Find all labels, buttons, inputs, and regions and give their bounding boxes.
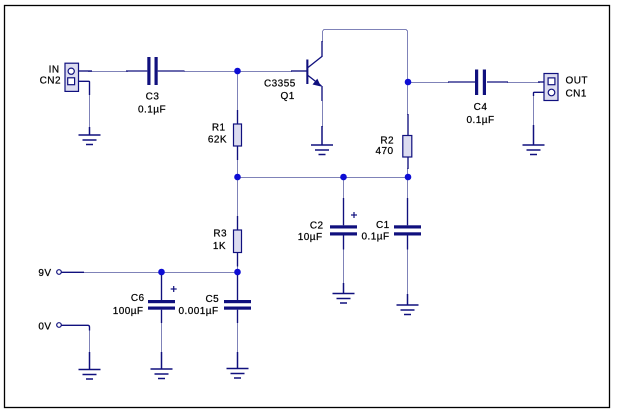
ground at C6 — [151, 352, 173, 379]
node at C3/R1 — [234, 68, 241, 75]
wire C4 to CN1 — [507, 82, 540, 84]
wire node to C4 — [409, 82, 449, 84]
wire R1 bottom to node — [237, 159, 239, 175]
wire node to C2 — [343, 179, 345, 199]
wire CN1 pin 2 to ground — [533, 95, 535, 126]
wire C1 to ground — [407, 249, 409, 295]
svg-text:C3: C3 — [146, 92, 160, 103]
svg-text:R3: R3 — [213, 229, 227, 240]
wire C6 to ground — [161, 322, 163, 353]
capacitor C3 — [126, 57, 185, 85]
ground at C1 — [397, 294, 419, 315]
wire R2 bottom to node — [407, 168, 409, 175]
ground at CN2 — [79, 127, 101, 145]
wire R3 bottom to node — [237, 265, 239, 270]
svg-text:0.1µF: 0.1µF — [362, 232, 390, 243]
wire node to R1 top — [237, 73, 239, 111]
node at R2 top / C4 — [405, 79, 412, 86]
capacitor C5 — [224, 275, 251, 323]
resistor R1 — [234, 110, 242, 160]
ground at C2 — [333, 283, 355, 303]
svg-text:100µF: 100µF — [113, 306, 144, 317]
terminal 9V — [57, 270, 84, 275]
connector CN2 — [65, 63, 92, 95]
label plus C2 — [351, 212, 357, 218]
svg-text:470: 470 — [375, 146, 393, 157]
svg-text:0V: 0V — [38, 322, 51, 333]
svg-text:0.001µF: 0.001µF — [179, 306, 219, 317]
ground at 0V — [79, 352, 101, 379]
ground at Q1 emitter — [311, 126, 333, 155]
wire Q1 emitter to ground — [322, 101, 324, 127]
wire CN2 to C3 — [88, 71, 128, 73]
wire Q1 collector to node at R2 top — [323, 30, 408, 80]
capacitor C1 — [394, 198, 421, 250]
svg-text:IN: IN — [49, 65, 60, 76]
ground at CN1 — [523, 125, 545, 155]
capacitor C6 — [148, 275, 175, 323]
wire node to C1 — [407, 179, 409, 199]
svg-text:C3355: C3355 — [264, 79, 296, 90]
connector CN1 — [534, 74, 559, 101]
svg-text:C1: C1 — [376, 220, 390, 231]
svg-text:1K: 1K — [213, 241, 226, 252]
wire C2 to ground — [343, 249, 345, 284]
capacitor C2 — [330, 198, 357, 250]
wire bias rail R1-C2-R2 — [238, 177, 409, 179]
node at bias rail / R2 bottom — [405, 174, 412, 181]
svg-text:OUT: OUT — [566, 76, 588, 87]
svg-text:C2: C2 — [310, 221, 324, 232]
wire CN2 pin 2 to ground — [89, 94, 91, 128]
resistor R3 — [234, 216, 242, 267]
node at 9V rail / C6 — [158, 269, 165, 276]
capacitor C4 — [448, 70, 508, 96]
svg-text:R1: R1 — [212, 123, 226, 134]
wire C5 to ground — [237, 322, 239, 353]
svg-text:CN2: CN2 — [40, 76, 61, 87]
svg-text:0.1µF: 0.1µF — [138, 105, 166, 116]
svg-text:62K: 62K — [208, 135, 227, 146]
wire 0V to ground — [89, 330, 91, 353]
terminal 0V — [57, 323, 90, 331]
transistor Q1 — [291, 41, 323, 101]
svg-text:R2: R2 — [380, 136, 394, 147]
ground at C5 — [227, 352, 249, 378]
wire C3 to Q1 base — [184, 71, 292, 73]
wire 9V rail — [84, 272, 235, 274]
svg-text:0.1µF: 0.1µF — [466, 115, 494, 126]
node at bias rail / C2 — [340, 174, 347, 181]
svg-text:CN1: CN1 — [566, 89, 587, 100]
label plus C6 — [171, 286, 177, 292]
node at 9V rail / R3 bottom — [234, 269, 241, 276]
wire node to R2 top — [407, 85, 409, 115]
wire node to R3 top — [237, 179, 239, 217]
svg-text:9V: 9V — [38, 268, 51, 279]
svg-text:Q1: Q1 — [281, 91, 295, 102]
svg-text:C4: C4 — [474, 102, 488, 113]
resistor R2 — [403, 114, 412, 169]
node at bias rail / R1 bottom — [234, 174, 241, 181]
svg-text:10µF: 10µF — [298, 232, 323, 243]
svg-text:C5: C5 — [206, 294, 220, 305]
svg-text:C6: C6 — [131, 293, 145, 304]
